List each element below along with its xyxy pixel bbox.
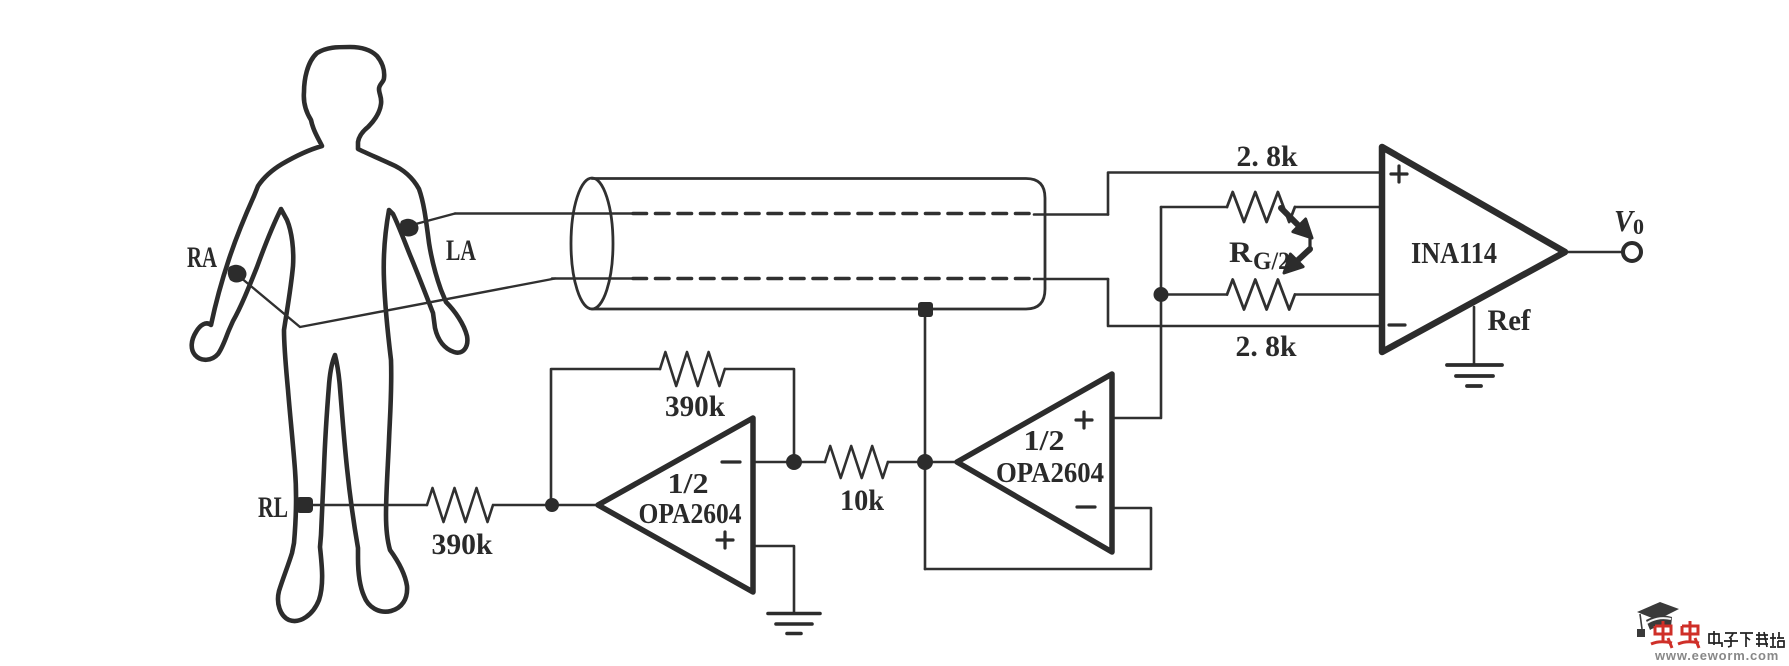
svg-text:10k: 10k	[840, 484, 884, 517]
U3 +input polarity mark	[1076, 412, 1092, 428]
watermark red characters	[1651, 621, 1699, 648]
cable bottom conductor exit lead	[1034, 278, 1108, 281]
svg-text:390k: 390k	[665, 390, 725, 423]
cable top conductor exit lead	[1034, 213, 1108, 216]
svg-text:390k: 390k	[432, 528, 493, 561]
wire top conductor riser to +input of U1	[1108, 173, 1382, 215]
svg-text:Ref: Ref	[1488, 304, 1532, 337]
wire RG left rail (node between gain resistors and U3 +input)	[1112, 207, 1161, 418]
wire RL electrode to R1	[304, 504, 427, 506]
wire U1 Ref pin to ground	[1473, 307, 1476, 364]
U1 -input polarity mark	[1389, 323, 1405, 326]
potentiometer wiper connector bar	[1308, 236, 1311, 251]
svg-text:RL: RL	[258, 491, 288, 524]
svg-text:R: R	[1229, 236, 1252, 269]
wire U3 feedback loop output to -input	[925, 508, 1151, 569]
svg-text:V: V	[1614, 203, 1635, 238]
electrode LA	[400, 219, 419, 237]
U2 -input polarity mark	[722, 460, 740, 463]
svg-text:LA: LA	[446, 234, 476, 267]
wire U3 output to guard node junction	[925, 461, 957, 464]
watermark black site name characters	[1709, 631, 1784, 647]
U3 -input polarity mark	[1077, 505, 1095, 508]
svg-text:RA: RA	[187, 241, 217, 274]
svg-text:www.eeworm.com: www.eeworm.com	[1654, 648, 1779, 661]
U1 +input polarity mark	[1391, 166, 1407, 182]
potentiometer wiper arrow upper	[1281, 208, 1312, 273]
output terminal Vo circle	[1623, 243, 1641, 261]
resistor R3 10k	[825, 446, 888, 478]
wire U1 output to Vo terminal	[1565, 251, 1623, 253]
wire U2 feedback: output node up and across through R2 to -input node	[551, 369, 794, 505]
wire bottom conductor drop to -input of U1	[1108, 279, 1382, 326]
potentiometer wiper arrow lower	[1297, 249, 1310, 261]
op-amp U2 1/2 OPA2604 (left, output at left apex)	[598, 418, 753, 592]
junction dot: cable shield tap	[918, 302, 933, 317]
junction dot: RG lower left node	[1154, 287, 1169, 302]
electrode RA	[228, 265, 247, 283]
svg-text:1/2: 1/2	[1024, 425, 1065, 457]
cable top conductor solid lead	[455, 212, 633, 215]
wire U2 -input to feedback node	[753, 461, 794, 464]
junction dot: guard node at R3/U3 output	[917, 454, 933, 470]
cable bottom conductor solid lead	[552, 277, 633, 280]
U2 +input polarity mark	[717, 532, 733, 548]
svg-text:2. 8k: 2. 8k	[1237, 140, 1298, 173]
wire R1 to U2 output apex	[494, 504, 598, 506]
wire RG bottom branch to U1 gain pin	[1161, 293, 1382, 296]
cable bottom conductor dashed	[633, 277, 1034, 281]
svg-text:OPA2604: OPA2604	[639, 498, 742, 530]
resistor R1 390k (RL series)	[427, 488, 493, 522]
wire LA electrode to cable top conductor	[412, 214, 455, 226]
ground symbol at U1 Ref	[1447, 365, 1502, 386]
wire feedback node through R3 to guard node	[794, 461, 925, 464]
wire RG top branch to U1 gain pin	[1161, 206, 1382, 209]
junction dot: U2 -input feedback node	[786, 454, 802, 470]
resistor RG/2 upper	[1227, 192, 1295, 222]
shielded cable body	[592, 179, 1045, 310]
watermark logo graduation cap	[1637, 602, 1679, 637]
svg-text:INA114: INA114	[1411, 235, 1497, 270]
shielded cable left end ellipse	[571, 178, 613, 309]
wire RA electrode to cable bottom conductor	[240, 277, 555, 327]
resistor R2 390k (feedback)	[660, 352, 725, 386]
instrumentation amp U1 INA114	[1382, 147, 1565, 352]
electrode RL	[296, 497, 313, 513]
ground symbol at U2 +input	[768, 614, 820, 634]
wire U2 +input to ground	[753, 546, 794, 612]
svg-text:2. 8k: 2. 8k	[1236, 330, 1297, 363]
resistor RG/2 lower	[1227, 280, 1295, 310]
junction dot: U2 output node	[545, 498, 559, 512]
svg-text:1/2: 1/2	[668, 468, 709, 500]
svg-text:G/2: G/2	[1253, 248, 1290, 275]
body figure (patient silhouette)	[192, 47, 468, 621]
cable top conductor dashed	[633, 212, 1034, 216]
svg-text:OPA2604: OPA2604	[996, 457, 1104, 489]
svg-text:0: 0	[1633, 214, 1644, 239]
wire shield drop from cable to guard node	[924, 309, 927, 569]
op-amp U3 1/2 OPA2604 (guard driver, output at left apex)	[957, 374, 1112, 552]
